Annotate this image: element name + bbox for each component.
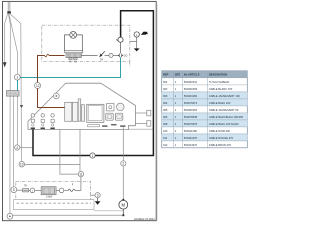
earth arrow (95, 201, 101, 205)
round cap (117, 103, 125, 111)
connector bar 1 (65, 102, 72, 121)
svg-text:500400131: 500400131 (184, 80, 198, 84)
brown wire down (38, 56, 45, 83)
node 11 (78, 171, 83, 176)
svg-text:1.6kW: 1.6kW (46, 197, 53, 199)
svg-text:3: 3 (97, 194, 99, 198)
plug icon (141, 32, 148, 35)
hose inner wire A (8, 13, 10, 90)
svg-text:REP: REP (163, 73, 169, 77)
wire node2 to pump (122, 166, 124, 200)
connector bar 3 (78, 99, 81, 121)
safety fuse circle (109, 53, 113, 57)
bottom return wire (13, 214, 124, 216)
wire to connector (113, 54, 119, 56)
svg-text:M: M (122, 202, 126, 207)
wire 10 leader (25, 163, 80, 165)
terminal post 1 (31, 114, 34, 117)
svg-text:010: 010 (163, 129, 168, 133)
note box lead (94, 210, 123, 212)
thermostat arrow TH (101, 51, 105, 55)
hose flow hook (20, 105, 23, 108)
board edge link wire (128, 128, 153, 130)
hose collar (7, 11, 11, 13)
svg-text:1: 1 (92, 154, 94, 158)
svg-text:012: 012 (163, 143, 168, 147)
node 4 (15, 145, 20, 150)
connector bar 4 (81, 105, 84, 122)
svg-text:CABLE BLEU 200: CABLE BLEU 200 (209, 101, 231, 105)
svg-text:001: 001 (163, 80, 168, 84)
node 3 (95, 193, 100, 198)
node 1 (14, 74, 20, 80)
wire (56, 189, 59, 191)
svg-text:TUYAU VAPEUR: TUYAU VAPEUR (209, 80, 229, 84)
svg-text:CABLE BLANC 370: CABLE BLANC 370 (209, 87, 233, 91)
boiler terminal tabs (69, 58, 72, 60)
iron entry node 5 (11, 187, 17, 193)
node 10 (19, 161, 25, 167)
plug earth drop (136, 37, 138, 48)
hose right wall (9, 13, 21, 161)
cyan stub into terminal block (17, 80, 19, 90)
wire board to pump (122, 127, 124, 161)
smd pad 2 (111, 124, 116, 125)
svg-text:006: 006 (163, 115, 168, 119)
thick black cable (33, 11, 153, 156)
brown wire to board (38, 89, 65, 108)
svg-text:CABLE ROUGE 270: CABLE ROUGE 270 (209, 136, 234, 140)
wire to iron box (12, 96, 14, 187)
svg-text:500401070: 500401070 (184, 136, 198, 140)
steam direction arrow (3, 62, 7, 67)
svg-text:DESIGNATION: DESIGNATION (209, 73, 227, 77)
iron circle F (59, 188, 64, 193)
wire to iron thermostat (17, 189, 23, 191)
svg-text:CABLE BRUN 270: CABLE BRUN 270 (209, 143, 232, 147)
node 1 on thick cable (90, 153, 95, 158)
brown squiggle (45, 54, 49, 57)
bottom node (7, 213, 13, 219)
parts table (162, 71, 248, 148)
leader 4 to thick cable (20, 147, 33, 149)
iron squiggle (68, 189, 75, 192)
svg-text:11: 11 (79, 172, 83, 176)
svg-text:5: 5 (13, 188, 15, 192)
svg-text:500401060: 500401060 (184, 94, 198, 98)
link to boundary (130, 40, 137, 42)
wire (35, 189, 42, 191)
connector pair GO (118, 54, 121, 58)
pump stub (122, 209, 124, 215)
svg-text:TH: TH (24, 186, 27, 188)
svg-text:GO: GO (124, 55, 128, 58)
wire N to connector (120, 42, 122, 53)
svg-text:005: 005 (163, 108, 168, 112)
svg-text:N: N (116, 38, 118, 42)
neutral circle N (118, 37, 123, 42)
svg-text:CABLE JAUNE/VERT 60: CABLE JAUNE/VERT 60 (209, 108, 239, 112)
cable bleu (cyan) wire (20, 57, 120, 77)
wire (64, 189, 69, 191)
svg-text:500413270: 500413270 (184, 143, 198, 147)
svg-text:QTE: QTE (175, 73, 181, 77)
node 12 (35, 83, 41, 89)
wire boiler right (81, 54, 97, 56)
svg-text:500076374: 500076374 (184, 101, 198, 105)
iron heater element (41, 187, 56, 195)
svg-text:500400152: 500400152 (184, 108, 198, 112)
display module (87, 104, 104, 122)
svg-text:CABLE JAUNE/VERT 130: CABLE JAUNE/VERT 130 (209, 94, 240, 98)
buzzer ring (53, 93, 59, 99)
svg-text:500411280: 500411280 (184, 129, 198, 133)
lamp loop wires (65, 35, 70, 51)
wire to node 4 (16, 96, 18, 145)
svg-text:4: 4 (16, 146, 18, 150)
wire (29, 189, 30, 191)
pilot lamp (70, 32, 77, 39)
svg-text:003: 003 (163, 94, 168, 98)
iron fuse circle (30, 188, 35, 193)
board tab 1 (135, 112, 147, 114)
wire iron box to earth node (91, 194, 96, 196)
sensor square (107, 104, 114, 111)
svg-text:TH: TH (100, 59, 103, 61)
svg-text:1: 1 (16, 76, 18, 80)
mains plug circle (134, 32, 139, 37)
svg-text:008: 008 (163, 122, 168, 126)
svg-text:F: F (72, 183, 74, 186)
steam hose top tube (7, 2, 9, 12)
smd pad 3 (120, 125, 125, 126)
terminal block (7, 91, 20, 97)
boundary edge overshoot (129, 61, 131, 67)
machine boundary box (42, 25, 130, 61)
svg-text:TH: TH (69, 62, 72, 64)
wire A lower run (9, 96, 11, 214)
smd pad 1 (102, 125, 107, 126)
earth drop (97, 198, 99, 201)
svg-text:500078038: 500078038 (184, 115, 198, 119)
node 2 (121, 161, 126, 166)
boiler heater flange (65, 51, 83, 53)
pad bar under display (88, 125, 100, 127)
pump motor M (119, 200, 128, 209)
svg-text:004: 004 (163, 101, 168, 105)
terminal post 2 (41, 114, 44, 117)
pump junction dot top (122, 199, 124, 201)
wire board to node 10 junction (79, 130, 81, 172)
earth arrow (134, 48, 140, 51)
svg-text:No ARTICLE: No ARTICLE (184, 73, 200, 77)
control board outline (28, 83, 135, 129)
frame shadow (156, 4, 158, 221)
svg-text:CABLE BLEU/BLEU 160/150: CABLE BLEU/BLEU 160/150 (209, 115, 244, 119)
terminal post 3 (51, 114, 54, 117)
cable brun (brown) wire (49, 55, 65, 57)
svg-text:NV: NV (74, 62, 78, 64)
svg-text:12: 12 (36, 84, 40, 88)
svg-text:CABLE BLEU 100 NANO: CABLE BLEU 100 NANO (209, 122, 239, 126)
svg-text:Modifiee 10.2012: Modifiee 10.2012 (134, 217, 155, 221)
wire up to node 11 (75, 177, 81, 191)
note box (13, 200, 94, 210)
svg-text:CABLE NOIR 200: CABLE NOIR 200 (209, 129, 231, 133)
svg-text:002: 002 (163, 87, 168, 91)
svg-text:10: 10 (20, 163, 24, 167)
wire to safety fuse (105, 54, 109, 56)
hose left wall (5, 13, 8, 62)
connector bar 2 (72, 102, 77, 121)
board tab 2 (135, 122, 147, 124)
wire board to node 11 (60, 130, 78, 175)
svg-text:2: 2 (122, 162, 124, 166)
relay 2 (115, 113, 122, 120)
svg-text:500400159: 500400159 (184, 87, 198, 91)
hose inner wire B (9, 13, 18, 74)
relay 1 (106, 113, 113, 120)
svg-text:011: 011 (163, 136, 168, 140)
svg-text:500079378: 500079378 (184, 122, 198, 126)
junction dot (122, 214, 124, 216)
boiler heater body (66, 53, 81, 58)
iron boundary box (16, 181, 91, 200)
